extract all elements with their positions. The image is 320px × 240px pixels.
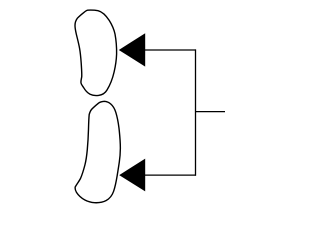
arrow bottom (solid left-pointing triangle): [119, 159, 145, 192]
kidney top (bean-shaped outline): [75, 10, 117, 95]
wire bottom horizontal: [144, 174, 196, 176]
wire middle stub: [196, 111, 226, 113]
wire top horizontal: [144, 49, 196, 51]
wire vertical: [195, 49, 197, 175]
arrow top (solid left-pointing triangle): [119, 33, 145, 66]
kidney bottom (bean-shaped outline): [75, 101, 120, 202]
